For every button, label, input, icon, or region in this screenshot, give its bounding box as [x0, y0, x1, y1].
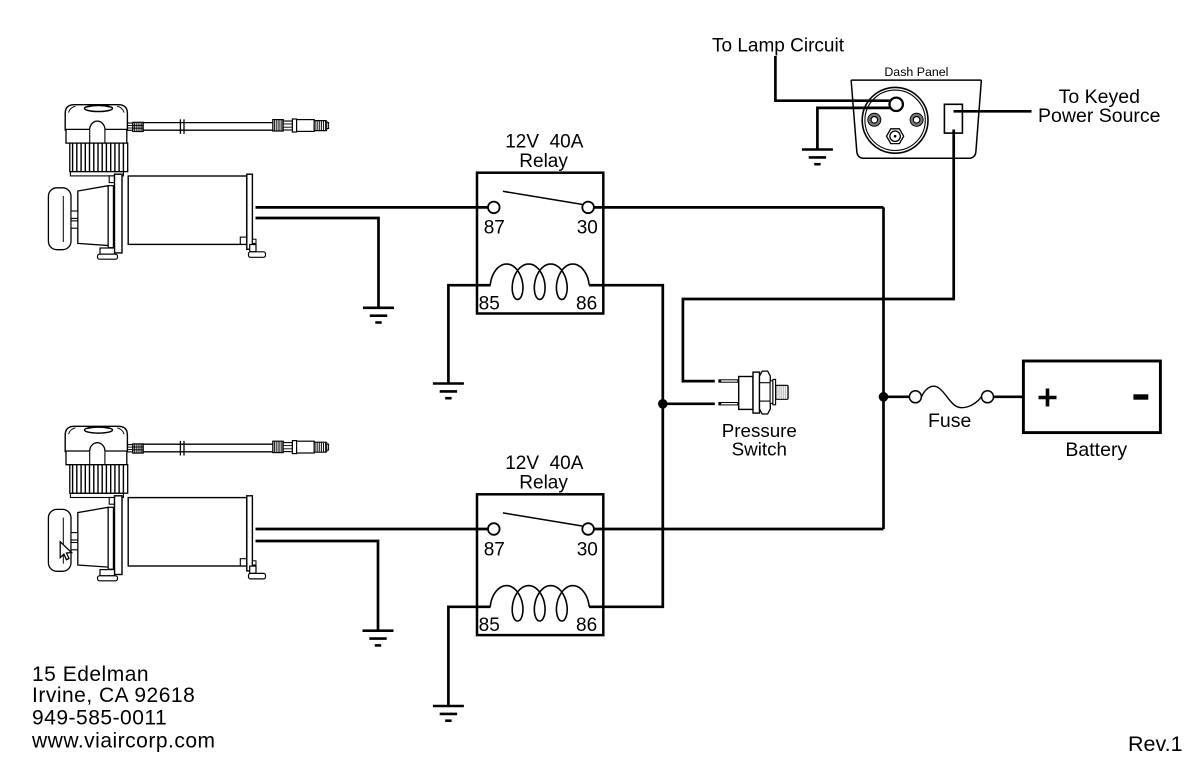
svg-text:Power Source: Power Source	[1038, 105, 1160, 127]
svg-text:www.viaircorp.com: www.viaircorp.com	[31, 729, 216, 752]
svg-text:Relay: Relay	[519, 151, 568, 172]
svg-text:Irvine, CA 92618: Irvine, CA 92618	[32, 684, 195, 707]
svg-text:15 Edelman: 15 Edelman	[32, 663, 149, 686]
svg-text:Rev.1: Rev.1	[1128, 732, 1183, 756]
svg-text:12V 40A: 12V 40A	[505, 131, 583, 152]
svg-text:85: 85	[479, 294, 500, 315]
svg-text:Battery: Battery	[1065, 439, 1127, 461]
svg-text:Fuse: Fuse	[928, 410, 971, 432]
svg-text:To Lamp Circuit: To Lamp Circuit	[712, 36, 845, 57]
svg-text:30: 30	[577, 218, 598, 239]
svg-text:Switch: Switch	[732, 438, 787, 459]
svg-text:87: 87	[484, 218, 505, 239]
svg-text:949-585-0011: 949-585-0011	[32, 707, 167, 730]
svg-text:86: 86	[576, 294, 597, 315]
svg-text:Dash Panel: Dash Panel	[884, 65, 948, 79]
